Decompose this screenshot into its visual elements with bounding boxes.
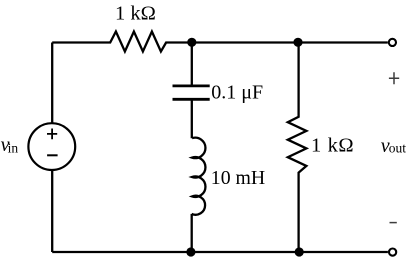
svg-text:1 kΩ: 1 kΩ [115, 3, 156, 25]
svg-text:in: in [8, 141, 19, 156]
svg-text:out: out [389, 141, 407, 156]
svg-text:0.1 μF: 0.1 μF [211, 82, 263, 104]
svg-text:1 kΩ: 1 kΩ [311, 135, 354, 157]
svg-text:10 mH: 10 mH [211, 167, 265, 189]
